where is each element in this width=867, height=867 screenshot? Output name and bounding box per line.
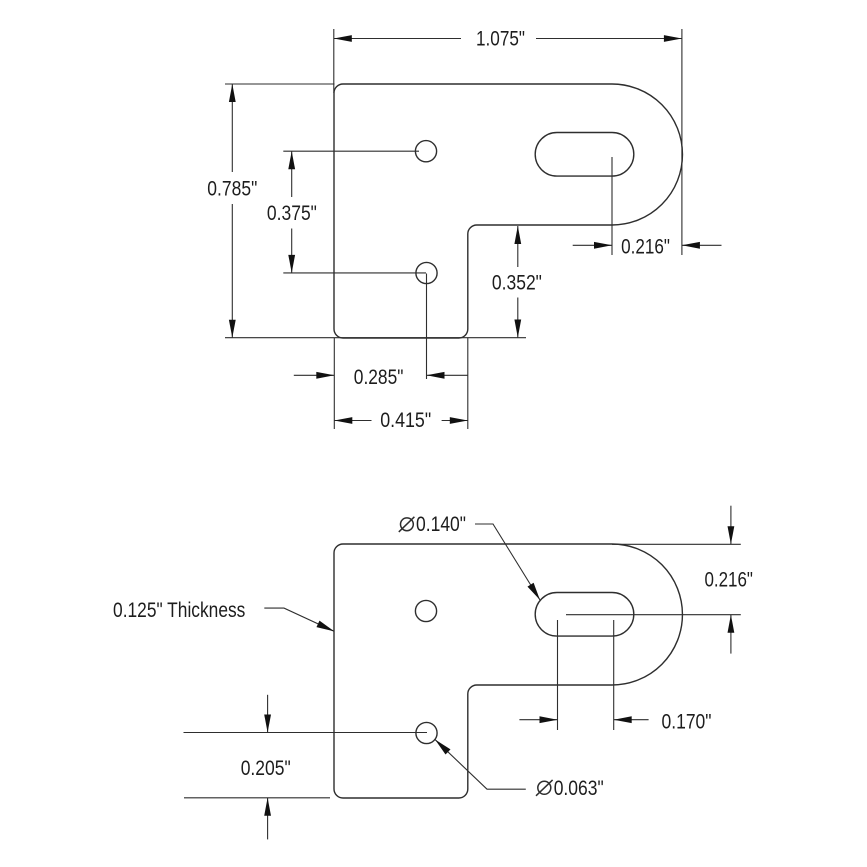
dimension 0.785" (left height) <box>207 84 526 338</box>
dimension 0.170" (slot arc centres) <box>519 620 711 734</box>
svg-text:0.415": 0.415" <box>380 409 431 432</box>
svg-text:0.205": 0.205" <box>241 757 291 780</box>
svg-text:0.125" Thickness: 0.125" Thickness <box>113 599 245 622</box>
svg-text:0.063": 0.063" <box>554 777 604 800</box>
svg-text:0.216": 0.216" <box>704 569 753 592</box>
hole H1 (top view) <box>415 141 436 162</box>
svg-text:0.785": 0.785" <box>207 178 257 201</box>
hole H2 (top view) <box>416 262 437 283</box>
dimension 0.352" (notch height) <box>492 226 542 338</box>
label 0.125" Thickness with leader to left edge <box>113 599 334 631</box>
svg-text:0.170": 0.170" <box>662 711 712 734</box>
svg-text:1.075": 1.075" <box>476 27 525 50</box>
hole H2 (bottom view) <box>416 722 437 743</box>
slot (bottom view) <box>535 593 634 637</box>
dimension 0.415" (edge to step) <box>334 338 468 432</box>
part outline (top view) <box>334 84 682 338</box>
dimension 0.216" (top edge to slot centre, bottom view) <box>566 506 753 654</box>
svg-text:0.285": 0.285" <box>354 366 404 389</box>
slot (top view) <box>535 133 634 177</box>
svg-text:0.216": 0.216" <box>621 236 670 259</box>
label Ø0.063" with leader to hole H2 <box>435 740 604 801</box>
dimension 0.375" (hole spacing) <box>267 151 426 273</box>
svg-text:0.375": 0.375" <box>267 202 317 225</box>
part outline (bottom view) <box>334 544 682 798</box>
dimension 1.075" (top width) <box>334 27 682 255</box>
dimension 0.205" (bottom edge to hole) <box>184 695 428 840</box>
svg-text:0.140": 0.140" <box>416 513 466 536</box>
dimension 0.285" (edge to hole) <box>294 274 468 390</box>
svg-text:0.352": 0.352" <box>492 271 542 294</box>
dimension 0.216" (slot end to edge, top view) <box>573 157 722 259</box>
label Ø0.140" with leader to slot <box>399 513 540 600</box>
hole H1 (bottom view) <box>415 600 436 621</box>
